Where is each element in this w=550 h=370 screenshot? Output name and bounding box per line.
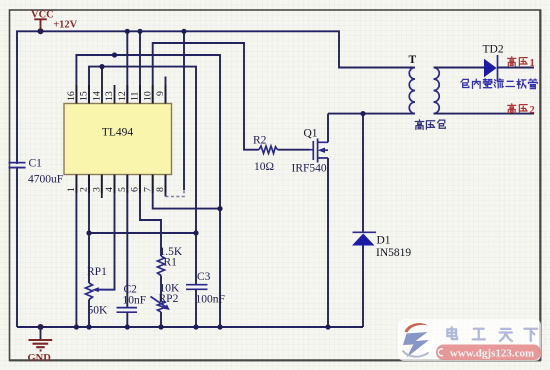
op-amp U1 chip TL494 body	[64, 104, 172, 175]
node bus junction RP1	[86, 324, 91, 329]
wire pin1 to bus	[75, 175, 77, 328]
node D1 top junction	[360, 111, 365, 116]
capacitor C1	[9, 163, 26, 168]
node bus junction C3	[193, 324, 198, 329]
svg-text:www.dgjs123.com: www.dgjs123.com	[450, 348, 534, 360]
node bus junction C2	[125, 324, 130, 329]
wire feedback horizontal	[89, 232, 196, 234]
svg-text:TL494: TL494	[102, 127, 134, 139]
node pin7 junction	[217, 206, 222, 211]
svg-text:15: 15	[79, 91, 90, 101]
svg-text:VCC: VCC	[31, 10, 54, 21]
svg-text:C1: C1	[29, 158, 43, 170]
watermark pill www.dgjs123.com	[436, 345, 541, 361]
svg-text:GND: GND	[28, 353, 52, 364]
wire dashed pin8 link	[166, 190, 185, 197]
resistor R1	[158, 256, 165, 276]
wire pin10 to R2	[153, 43, 259, 150]
diode D1 IN5819	[362, 114, 364, 327]
wire pin7 to net	[153, 175, 220, 209]
svg-text:D1: D1	[377, 235, 391, 247]
svg-text:7: 7	[142, 187, 153, 192]
wire pin6 to R1	[140, 175, 161, 257]
potentiometer RP2	[158, 301, 165, 312]
node bus junction pin7 net	[217, 324, 222, 329]
wire pin16 pin13 net to pin7	[76, 55, 220, 327]
wire pin13 junction	[112, 52, 117, 57]
wire ground bus	[17, 326, 363, 328]
svg-text:TD2: TD2	[483, 44, 504, 56]
capacitor C2	[117, 308, 138, 313]
watermark text 电工天下	[447, 327, 537, 341]
text 高压包 blue label	[415, 120, 445, 130]
vcc symbol	[34, 19, 47, 31]
svg-text:16: 16	[66, 91, 77, 101]
svg-text:IN5819: IN5819	[376, 247, 411, 259]
svg-text:T: T	[409, 54, 417, 66]
svg-text:4700uF: 4700uF	[28, 174, 63, 186]
text 包内整流二极管 blue label	[461, 79, 537, 89]
transformer T secondary winding	[434, 68, 440, 114]
text 高压1 red label	[508, 57, 528, 66]
node bus junction pin1	[74, 324, 79, 329]
svg-text:Q1: Q1	[304, 128, 318, 140]
node rail junction pin11	[137, 29, 142, 34]
wire pin5 to C2	[126, 175, 128, 308]
svg-text:2: 2	[530, 105, 535, 116]
svg-text:5: 5	[117, 187, 128, 192]
svg-text:R2: R2	[253, 135, 267, 147]
node bus junction RP2	[158, 324, 163, 329]
node feedback junction pin2/RP1	[86, 230, 91, 235]
watermark logo	[401, 323, 434, 357]
svg-text:C3: C3	[197, 271, 211, 283]
wire secondary bottom	[434, 113, 535, 115]
svg-text:9: 9	[155, 91, 166, 96]
svg-text:11: 11	[130, 91, 141, 101]
svg-text:4: 4	[104, 187, 115, 192]
wire pin4 to RP1 wiper	[97, 175, 115, 290]
svg-text:50K: 50K	[88, 305, 109, 317]
transistor Q1 IRF540	[313, 139, 317, 163]
wire +12V rail	[17, 31, 415, 327]
wire pin11 to rail	[139, 31, 141, 103]
node Q1 source bus junction	[325, 324, 330, 329]
svg-text:12: 12	[117, 91, 128, 101]
watermark backdrop	[398, 319, 541, 361]
svg-text:1: 1	[530, 58, 535, 69]
svg-text:6: 6	[130, 187, 141, 192]
wire pin9 stub	[165, 77, 167, 104]
node VCC junction	[38, 28, 44, 34]
potentiometer RP1	[86, 283, 93, 300]
wire pin12 to rail	[126, 31, 128, 103]
svg-text:8: 8	[155, 187, 166, 192]
svg-text:IRF540: IRF540	[292, 163, 327, 175]
node feedback junction C3 net	[193, 230, 198, 235]
pin numbers top	[66, 91, 166, 101]
ground symbol	[40, 327, 42, 340]
node rail junction x184	[181, 29, 186, 34]
wire rail drop x184 to pin8	[183, 31, 185, 190]
svg-text:14: 14	[92, 91, 103, 101]
wire pin8 stub	[165, 175, 167, 197]
svg-text:RP1: RP1	[87, 266, 107, 278]
svg-text:13: 13	[104, 91, 115, 101]
svg-text:3: 3	[91, 187, 102, 192]
svg-text:10: 10	[142, 91, 153, 101]
resistor R2	[259, 146, 278, 153]
wire pin3 stub	[101, 175, 103, 199]
wire pin14 junction	[99, 64, 104, 69]
node rail junction pin12	[125, 29, 130, 34]
chip pin stubs top	[76, 67, 165, 193]
pin numbers bottom	[66, 187, 166, 192]
svg-text:+12V: +12V	[53, 20, 77, 31]
svg-text:2: 2	[79, 187, 90, 192]
svg-text:RP2: RP2	[159, 293, 179, 305]
svg-text:1: 1	[66, 187, 77, 192]
svg-text:10nF: 10nF	[123, 295, 147, 307]
wire pin2 to feedback node	[88, 175, 90, 234]
capacitor C3	[186, 285, 208, 290]
svg-text:100nF: 100nF	[196, 294, 225, 306]
wire secondary top to TD2	[434, 67, 485, 69]
wire pin15 pin14 net	[89, 67, 196, 284]
diode TD2	[484, 59, 497, 78]
transformer T primary winding	[409, 68, 415, 114]
svg-text:10Ω: 10Ω	[254, 161, 274, 173]
wire drain to transformer primary	[328, 113, 415, 115]
text 高压2 red label	[508, 104, 528, 113]
svg-text:R1: R1	[164, 257, 178, 269]
